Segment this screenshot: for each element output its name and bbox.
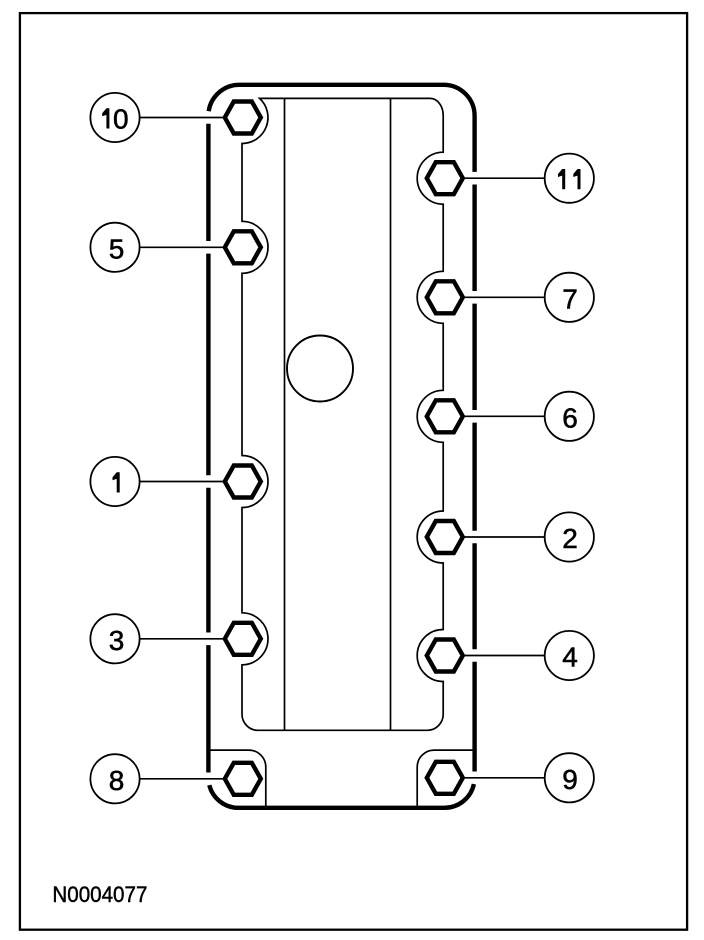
leader line 6 [445,415,546,417]
callout circle 7 [545,273,594,322]
bolt 10 hex head [225,102,261,134]
svg-text:4: 4 [562,642,578,673]
leader line 10 [139,117,243,119]
leader line 11 [445,177,546,179]
svg-text:3: 3 [109,625,125,656]
leader line 4 [445,655,546,657]
svg-text:2: 2 [562,523,578,554]
callout circle 3 [90,614,139,663]
callout circle 9 [545,753,594,802]
callout circle 4 [545,631,594,680]
callout circle 11 [545,154,594,203]
svg-text:7: 7 [562,283,578,314]
svg-text:9: 9 [562,764,578,795]
bolt 2 hex head [427,521,463,553]
svg-text:5: 5 [109,233,125,264]
bolt 4 hex head [427,640,463,672]
leader line 8 [139,778,243,780]
bolt 8 hex head [225,763,261,795]
callout circle 2 [545,512,594,561]
bottom flange notch around bolt 8 [208,750,265,806]
callout circle 5 [90,223,139,272]
svg-text:6: 6 [562,402,578,433]
valve cover outer edge (thick outline with leader-line gaps) [208,85,474,808]
leader line 7 [445,296,546,298]
callout circle 10 [90,93,139,142]
leader line 1 [139,481,243,483]
svg-text:N0004077: N0004077 [52,882,147,907]
bolt 7 hex head [427,281,463,313]
bolt 6 hex head [427,400,463,432]
bolt 11 hex head [427,162,463,194]
svg-text:8: 8 [109,765,125,796]
leader line 5 [139,246,243,248]
callout circle 6 [545,392,594,441]
bolt 9 hex head [427,762,463,794]
valve cover inner flange outline with bolt scallops [242,98,443,730]
bolt 3 hex head [225,623,261,655]
leader line 9 [445,777,546,779]
bolt 5 hex head [225,231,261,263]
bolt 1 hex head [225,466,261,498]
callout circle 1 [90,457,139,506]
bottom flange notch around bolt 9 [417,750,474,806]
svg-text:0: 0 [113,104,129,135]
cover rib line left [284,98,286,730]
oil filler cap circle [287,336,353,402]
cover rib line right [390,98,392,730]
leader line 3 [139,638,243,640]
callout circle 8 [90,754,139,803]
leader line 2 [445,536,546,538]
